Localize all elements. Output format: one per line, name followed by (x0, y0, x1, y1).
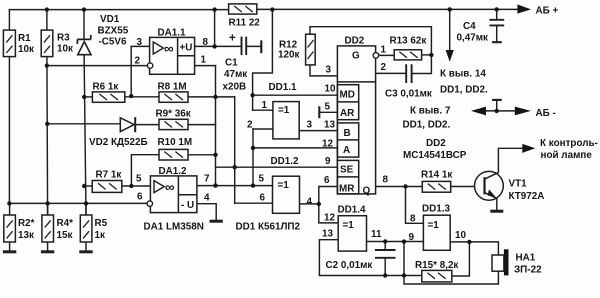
svg-text:DD1.4: DD1.4 (338, 205, 366, 216)
svg-text:ЗП-22: ЗП-22 (514, 265, 542, 276)
zener diode VD1 (77, 35, 91, 55)
svg-text:DD1.1: DD1.1 (269, 82, 297, 93)
wire: VT1 emitter to ground (496, 198, 498, 210)
wire: C4 from rail (496, 9, 498, 41)
svg-text:12: 12 (324, 213, 335, 224)
svg-text:АБ +: АБ + (536, 6, 559, 17)
svg-text:2: 2 (247, 120, 253, 131)
wire: vertical C pin2 column (252, 129, 254, 186)
svg-text:MD: MD (340, 90, 355, 101)
IC DD2 outline (337, 46, 375, 194)
svg-text:6: 6 (137, 192, 143, 203)
svg-text:DD1, DD2.: DD1, DD2. (403, 120, 451, 131)
arrow AB+ (517, 4, 531, 13)
svg-text:11: 11 (371, 229, 382, 240)
svg-text:R11 22: R11 22 (229, 18, 261, 29)
ground DA1.2 pin4 (210, 220, 223, 223)
wire: Q junction down to DD1.3 pin8 (406, 187, 424, 224)
capacitor C2 (375, 250, 396, 258)
svg-text:К контроль-: К контроль- (540, 138, 598, 149)
wire: R1 top stub (8, 10, 10, 31)
op-amp DA1.2 pin6 bubble (147, 201, 152, 206)
arrow K vyv 14 (down) (446, 50, 454, 62)
svg-text:3: 3 (137, 37, 143, 48)
wire: link vertical A to SE node (216, 166, 235, 168)
resistor R1 (3, 30, 15, 56)
resistor R12 (306, 34, 316, 65)
svg-text:120к: 120к (278, 50, 299, 61)
wire: A-row pin12 wire to DD2 (253, 147, 337, 149)
gate DD1.3 (423, 215, 450, 250)
svg-text:6: 6 (324, 175, 330, 186)
svg-text:10: 10 (455, 230, 466, 241)
svg-text:6: 6 (260, 193, 266, 204)
svg-text:B: B (344, 128, 351, 139)
svg-text:7: 7 (204, 174, 210, 185)
wire: R8 right to vertical B corner (188, 96, 235, 98)
wire: VT1 collector to lamp arrow (498, 148, 522, 172)
wire: R3/R4 column (46, 57, 49, 215)
svg-text:2: 2 (381, 62, 387, 73)
svg-text:SE: SE (340, 165, 354, 176)
wire: VD1 column top (83, 10, 85, 40)
svg-text:8: 8 (203, 37, 209, 48)
svg-text:VD1: VD1 (100, 14, 120, 25)
wire: DD1.1 out to DD2 B pin13 (299, 130, 337, 132)
resistor R13 (394, 50, 421, 60)
resistor R2 (4, 215, 16, 242)
ground R2 (3, 250, 16, 253)
IC DD2 G output bubble pin1 (373, 53, 379, 59)
svg-text:КТ972А: КТ972А (509, 191, 545, 202)
wire: junction up to MR row (319, 187, 338, 205)
svg-text:НА1: НА1 (516, 253, 536, 264)
svg-text:DA1.1: DA1.1 (158, 28, 186, 39)
wire: R5 column and ground stub (85, 203, 87, 250)
wire: DA1.1 pin1 stub (195, 65, 216, 67)
wire: R2 column and ground stub (9, 203, 11, 250)
resistor R9 (159, 119, 188, 129)
wire: R12 bottom to DD2 pin3 (310, 65, 337, 76)
arrow to control lamp (522, 144, 535, 153)
svg-text:BZX55: BZX55 (98, 26, 129, 37)
svg-text:C2 0,01мк: C2 0,01мк (326, 260, 373, 271)
resistor R4 (42, 215, 54, 242)
wire: vertical A pin1 feedback column (215, 66, 217, 186)
svg-text:R14 1к: R14 1к (421, 170, 452, 181)
wire: pin8 junction up to rail (214, 10, 216, 47)
svg-text:- U: - U (181, 200, 194, 211)
wire: VD2 cathode to R9 (135, 124, 159, 126)
svg-text:=1: =1 (343, 220, 355, 231)
resistor R10 (159, 149, 188, 160)
svg-text:АБ -: АБ - (536, 108, 556, 119)
svg-text:х20В: х20В (223, 82, 247, 93)
wire: DD1.1 pin1 arm (253, 109, 273, 111)
svg-text:G: G (352, 51, 360, 62)
gate DD1.4 (338, 216, 366, 251)
svg-text:4: 4 (204, 193, 210, 204)
svg-text:R6 1к: R6 1к (93, 82, 119, 93)
wire: vertical B column (234, 97, 236, 203)
wire: R10 left elbow down to pin5 node (131, 155, 159, 186)
wire: DA out row to DD1.2 pin5 (197, 185, 273, 187)
wire: R9 right to vertical A (188, 124, 216, 126)
wire: Q row to R14 (376, 186, 423, 188)
wire: R10 right to vertical A (188, 154, 216, 156)
wire: SE row to DD2 (235, 166, 338, 168)
svg-text:1: 1 (381, 45, 387, 56)
svg-text:10: 10 (325, 84, 336, 95)
op-amp DA1.2 (150, 176, 197, 213)
wire: AB- row (486, 110, 515, 112)
wire: G bubble to R13 (378, 54, 394, 56)
svg-text:C3 0,01мк: C3 0,01мк (385, 89, 432, 100)
svg-text:DA1.2: DA1.2 (159, 166, 187, 177)
diode VD2 (120, 117, 135, 132)
wire: DD1.2 pin6 arm (235, 202, 273, 204)
resistor R15 (422, 270, 452, 282)
wire: K vyv 14 drop (449, 9, 451, 50)
resistor R11 (229, 4, 257, 14)
capacitor C4 (489, 20, 504, 100)
op-amp DA1.1 (150, 37, 195, 74)
svg-text:47мк: 47мк (224, 69, 247, 80)
svg-text:A: A (343, 145, 350, 156)
resistor R5 (80, 215, 92, 242)
wire: R6 row left stub (84, 96, 92, 98)
wire: DD2 AR pin5 stub (320, 111, 338, 113)
wire: C1 right lead (246, 45, 261, 47)
wire: C4 lower stub to AB- (496, 100, 498, 111)
wire: AB+ top rail right segment (257, 8, 518, 10)
svg-text:-C5V6: -C5V6 (99, 37, 127, 48)
svg-text:4: 4 (307, 197, 313, 208)
svg-text:DD2: DD2 (426, 138, 446, 149)
IC DD2 MD/AR cell (337, 85, 358, 120)
svg-text:R13 62к: R13 62к (390, 36, 427, 47)
wire: R12 top loop to R13/C3 node (310, 27, 431, 74)
svg-text:13: 13 (324, 120, 335, 131)
svg-text:2: 2 (135, 56, 141, 67)
wire: R14 to VT1 base (451, 186, 484, 188)
svg-text:0,47мк: 0,47мк (457, 33, 489, 44)
svg-text:12: 12 (322, 139, 333, 150)
IC DD2 SE/MR cell (337, 160, 358, 194)
gate DD1.2 (273, 176, 300, 213)
wire: G pin2 to C3 (376, 72, 407, 74)
wire: MD row to DD2 (253, 94, 338, 96)
svg-text:5: 5 (136, 174, 142, 185)
svg-text:DD1.3: DD1.3 (422, 204, 450, 215)
resistor R8 (159, 92, 188, 102)
svg-text:R2*: R2* (18, 218, 35, 229)
capacitor C3 (406, 64, 411, 83)
op-amp DA1.1 pin2 bubble (147, 63, 152, 68)
svg-text:13: 13 (322, 229, 333, 240)
svg-text:VT1: VT1 (509, 179, 528, 190)
svg-text:+: + (229, 33, 236, 45)
svg-text:R1: R1 (18, 33, 31, 44)
ground VT1 emitter (490, 210, 503, 213)
svg-text:+U: +U (180, 43, 193, 54)
wire: DD1.2 pin4 out to junction (300, 203, 319, 205)
svg-text:1к: 1к (95, 230, 105, 241)
wire: R15 right up to pin10 row (452, 242, 470, 276)
wire: DD1.4 pin13 loop to bottom row (319, 240, 421, 276)
svg-text:=1: =1 (278, 105, 290, 116)
svg-text:MR: MR (339, 184, 354, 195)
DD2 AR pin5 open stub bar (318, 106, 320, 118)
svg-text:R5: R5 (95, 218, 108, 229)
ground R5 (79, 250, 92, 253)
svg-text:DD1 К561ЛП2: DD1 К561ЛП2 (236, 222, 301, 233)
svg-text:R8 1М: R8 1М (158, 82, 187, 93)
svg-text:5: 5 (259, 174, 265, 185)
wire: bottom return to HA1 (404, 242, 498, 284)
wire: DD1.4 pin11 row to DD1.3 pin9 (367, 241, 424, 243)
svg-text:R4*: R4* (57, 218, 74, 229)
wire: C2 bottom stub (384, 258, 386, 276)
svg-text:DD2: DD2 (345, 36, 365, 47)
wire: bottom rail to DA1.2 pin6 (9, 202, 147, 204)
svg-text:15к: 15к (57, 230, 73, 241)
arrow AB- (515, 107, 531, 116)
svg-text:DD1.2: DD1.2 (271, 156, 299, 167)
svg-text:∞: ∞ (165, 180, 175, 195)
svg-text:VD2 КД522Б: VD2 КД522Б (89, 137, 148, 148)
svg-text:R9* 36к: R9* 36к (156, 109, 191, 120)
resistor R7 (92, 181, 122, 193)
svg-text:К выв. 7: К выв. 7 (410, 106, 451, 117)
svg-text:3: 3 (326, 65, 332, 76)
svg-text:8: 8 (410, 214, 416, 225)
svg-text:R3: R3 (57, 33, 70, 44)
wire: junction down to DD1.4 pin12 (319, 204, 338, 223)
wire: VD1 column down to R5 (84, 55, 86, 215)
wire: R3 top stub (46, 10, 48, 31)
buzzer HA1 (492, 249, 509, 275)
svg-text:1: 1 (201, 55, 207, 66)
svg-text:AR: AR (340, 108, 354, 119)
wire: R1 to bottom rail column (8, 57, 10, 204)
svg-text:C1: C1 (225, 58, 238, 69)
wire: VD2 row from divider (47, 123, 120, 125)
svg-text:1: 1 (262, 100, 268, 111)
wire: R7 right to DA1.2 pin5 (122, 185, 151, 187)
arrow K vyv 7 (left) (471, 107, 486, 116)
wire: R6 to R8 (125, 96, 159, 98)
ground R4 (41, 250, 54, 253)
wire: R13 right stub (422, 54, 432, 56)
capacitor C1 (242, 37, 262, 55)
svg-text:∞: ∞ (164, 41, 174, 56)
wire: DD1.1 pin2 arm (253, 128, 273, 130)
wire: rail drop to MD and DD1.1 pin1 (253, 10, 273, 111)
svg-text:DD1, DD2.: DD1, DD2. (440, 85, 488, 96)
wire: DA1.1 pin8 row (195, 45, 242, 47)
svg-text:DA1 LM358N: DA1 LM358N (144, 222, 204, 233)
svg-text:R7 1к: R7 1к (96, 170, 122, 181)
resistor R14 (422, 181, 450, 192)
svg-text:К выв. 14: К выв. 14 (440, 69, 486, 80)
wire: R7 row left (84, 185, 92, 187)
svg-text:9: 9 (409, 232, 415, 243)
resistor R3 (41, 30, 53, 56)
svg-text:=1: =1 (278, 180, 290, 191)
wire: DA1.1 pin2 row from R3 column (47, 65, 147, 67)
svg-text:=1: =1 (428, 220, 440, 231)
svg-text:Q: Q (363, 186, 371, 197)
svg-text:R10 1М: R10 1М (158, 137, 193, 148)
IC DD2 B/A cell (337, 123, 358, 157)
gate DD1.1 (273, 102, 299, 139)
wire: DA1.1 pin3 L-wire (131, 46, 149, 96)
wire: DA1.2 pin4 to ground (197, 204, 216, 220)
svg-text:ной лампе: ной лампе (541, 150, 593, 161)
svg-text:5: 5 (325, 102, 331, 113)
wire: C2 top stub (384, 242, 386, 251)
svg-text:10к: 10к (57, 44, 73, 55)
resistor R6 (92, 92, 124, 102)
wire: DD1.3 pin10 to HA1 top (450, 242, 498, 255)
svg-text:МС14541ВСР: МС14541ВСР (403, 150, 467, 161)
svg-text:9: 9 (325, 156, 331, 167)
svg-text:10к: 10к (18, 44, 34, 55)
svg-text:13к: 13к (18, 230, 34, 241)
transistor VT1 (475, 171, 504, 200)
wire: AB+ top rail left segment (9, 9, 228, 11)
svg-text:C4: C4 (463, 21, 476, 32)
svg-text:R15* 8,2к: R15* 8,2к (415, 260, 458, 271)
svg-text:8: 8 (383, 175, 389, 186)
wire: R4 column and ground stub (47, 203, 49, 250)
svg-text:3: 3 (307, 120, 313, 131)
